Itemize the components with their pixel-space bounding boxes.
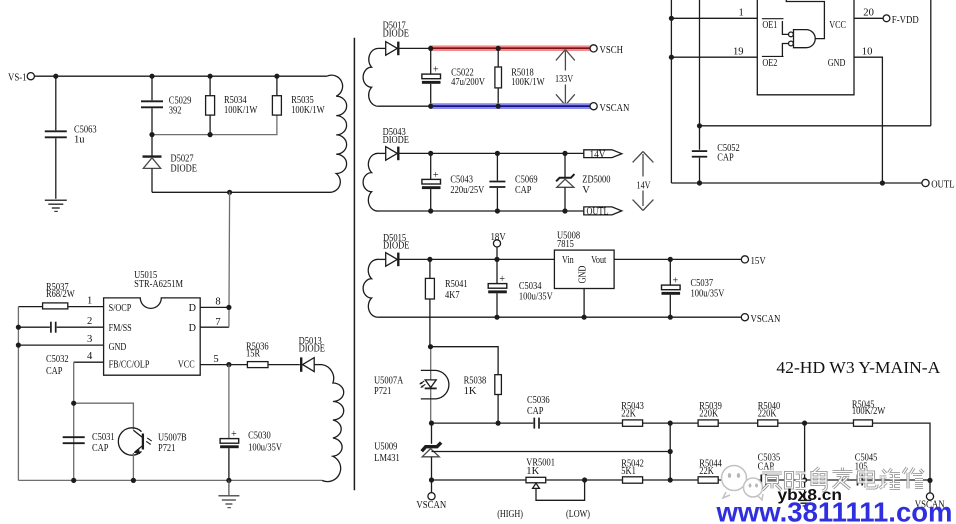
svg-text:VS-1: VS-1 bbox=[8, 71, 27, 83]
svg-text:22K: 22K bbox=[699, 466, 714, 477]
svg-text:(LOW): (LOW) bbox=[566, 509, 590, 520]
flag OUTL bbox=[584, 207, 622, 218]
node bottom-rail junctions bbox=[71, 478, 231, 483]
svg-text:DIODE: DIODE bbox=[171, 163, 197, 174]
svg-text:220K: 220K bbox=[758, 409, 777, 420]
svg-text:(HIGH): (HIGH) bbox=[497, 509, 523, 520]
svg-text:FM/SS: FM/SS bbox=[109, 323, 132, 334]
resistor R5035 bbox=[272, 76, 324, 116]
nand gate U-gate bbox=[782, 21, 815, 56]
transistor U5007B bbox=[118, 428, 186, 481]
svg-text:DIODE: DIODE bbox=[383, 28, 409, 39]
wire opto branch bbox=[431, 347, 499, 375]
svg-text:DIODE: DIODE bbox=[383, 135, 409, 146]
transformer 14V winding bbox=[363, 153, 379, 211]
wire VSCAN mid rail bbox=[379, 316, 741, 318]
svg-text:STR-A6251M: STR-A6251M bbox=[134, 279, 183, 290]
wire pin1 bbox=[18, 296, 103, 307]
transformer primary winding bbox=[327, 75, 347, 192]
svg-text:R68/2W: R68/2W bbox=[46, 289, 75, 300]
wire pin3 bbox=[18, 334, 103, 345]
svg-text:C5037: C5037 bbox=[691, 278, 714, 289]
svg-text:VSCAN: VSCAN bbox=[600, 102, 630, 114]
watermark www.3811111.com bbox=[715, 497, 952, 524]
svg-text:5: 5 bbox=[213, 354, 218, 365]
wire OUTL row bbox=[379, 210, 584, 212]
14V span arrow bbox=[633, 152, 654, 211]
svg-text:Vin: Vin bbox=[562, 255, 574, 266]
transformer core bbox=[353, 38, 355, 491]
gate IC box bbox=[757, 0, 854, 95]
terminal VSCAN-bottom-right bbox=[915, 493, 945, 511]
svg-text:19: 19 bbox=[733, 46, 744, 57]
capacitor C5035 bbox=[758, 453, 781, 486]
svg-text:14V: 14V bbox=[590, 149, 607, 160]
svg-text:4: 4 bbox=[87, 351, 93, 362]
svg-text:100u/35V: 100u/35V bbox=[519, 292, 553, 303]
svg-text:42-HD W3 Y-MAIN-A: 42-HD W3 Y-MAIN-A bbox=[776, 358, 940, 377]
svg-text:8: 8 bbox=[215, 297, 220, 308]
wire divider link vertical bbox=[669, 423, 671, 480]
svg-text:1K: 1K bbox=[526, 466, 539, 477]
wire pin5 VCC bbox=[200, 354, 247, 365]
svg-text:OE1: OE1 bbox=[762, 20, 777, 31]
diode D5017 bbox=[379, 20, 430, 55]
node primary-bottom junction bbox=[227, 190, 232, 195]
svg-text:1: 1 bbox=[87, 296, 92, 307]
diode D5015 bbox=[379, 233, 554, 266]
svg-text:47u/200V: 47u/200V bbox=[451, 77, 485, 88]
node pin4-loop junction bbox=[71, 401, 76, 406]
svg-text:VSCH: VSCH bbox=[600, 44, 624, 56]
svg-text:10: 10 bbox=[862, 46, 873, 57]
svg-text:1u: 1u bbox=[74, 135, 85, 146]
svg-text:C5031: C5031 bbox=[92, 432, 115, 443]
svg-text:5K1: 5K1 bbox=[621, 466, 636, 477]
label board title bbox=[776, 358, 940, 377]
wire pin19 OE2 bbox=[671, 46, 757, 57]
node logic-left junctions bbox=[669, 16, 674, 60]
wire feedback row A bbox=[432, 423, 931, 493]
resistor R5044 bbox=[698, 458, 722, 483]
svg-text:4K7: 4K7 bbox=[445, 290, 460, 301]
capacitor C5043 bbox=[422, 153, 485, 211]
shunt-reg U5009 LM431 bbox=[374, 423, 441, 480]
svg-text:22K: 22K bbox=[621, 409, 636, 420]
wire C5035 node vertical + ground bbox=[798, 423, 811, 506]
resistor R5042 bbox=[621, 458, 644, 483]
svg-text:VCC: VCC bbox=[829, 20, 846, 31]
wire C5052 branch bbox=[700, 125, 931, 127]
wire pin4 loop bbox=[74, 351, 134, 480]
capacitor C5052 bbox=[692, 143, 740, 183]
133V span arrow bbox=[555, 50, 575, 106]
svg-text:220u/25V: 220u/25V bbox=[450, 185, 484, 196]
svg-text:R5038: R5038 bbox=[464, 376, 487, 387]
wire bottom of primary bbox=[152, 191, 329, 193]
svg-text:C5030: C5030 bbox=[248, 430, 271, 441]
node pin8 junction bbox=[226, 305, 231, 310]
wire VSCH red bus bbox=[430, 45, 592, 51]
svg-text:V: V bbox=[582, 185, 590, 196]
wire 15V rail bbox=[614, 258, 741, 260]
svg-text:CAP: CAP bbox=[527, 406, 544, 417]
svg-text:100K/2W: 100K/2W bbox=[852, 406, 885, 417]
svg-text:1K: 1K bbox=[464, 386, 477, 397]
wire bottom rail bbox=[18, 479, 322, 481]
transformer VSCH winding bbox=[363, 48, 379, 106]
svg-text:CAP: CAP bbox=[758, 461, 775, 472]
capacitor C5036 bbox=[527, 395, 550, 429]
diode D5013 bbox=[299, 336, 325, 372]
capacitor C5032 bbox=[18, 316, 103, 377]
svg-text:D: D bbox=[189, 323, 196, 334]
wire pin7 bbox=[200, 317, 229, 328]
capacitor C5063 bbox=[45, 76, 97, 199]
wire top rail bbox=[34, 75, 327, 77]
svg-text:C5034: C5034 bbox=[519, 281, 542, 292]
resistor R5041 bbox=[425, 259, 467, 346]
svg-text:ZD5000: ZD5000 bbox=[582, 175, 610, 186]
svg-text:D: D bbox=[189, 303, 196, 314]
svg-text:100K/1W: 100K/1W bbox=[224, 105, 257, 116]
capacitor C5030 bbox=[220, 365, 282, 481]
resistor R5040 bbox=[758, 401, 781, 426]
svg-text:C5036: C5036 bbox=[527, 395, 550, 406]
wire pin20 F-VDD bbox=[854, 7, 883, 18]
svg-text:100u/35V: 100u/35V bbox=[248, 442, 282, 453]
svg-text:7: 7 bbox=[215, 317, 220, 328]
svg-text:www.3811111.com: www.3811111.com bbox=[715, 497, 952, 524]
svg-text:C5069: C5069 bbox=[515, 175, 538, 186]
wire pin1 OE1 bbox=[671, 7, 757, 18]
svg-text:220K: 220K bbox=[699, 409, 718, 420]
node logic-bottom junctions bbox=[697, 180, 885, 185]
svg-text:GND: GND bbox=[577, 266, 588, 284]
wire feedback row C bbox=[432, 479, 931, 481]
terminal VS-1 bbox=[8, 71, 34, 83]
svg-text:15V: 15V bbox=[751, 255, 766, 267]
potentiometer VR5001 bbox=[526, 457, 585, 500]
zener ZD5000 bbox=[556, 153, 610, 211]
diode D5027 bbox=[143, 135, 197, 193]
wire pin10 GND down bbox=[854, 46, 882, 183]
wire gray link C5029-R5034-R5035 bbox=[152, 115, 277, 135]
node pin5 junction bbox=[226, 362, 231, 367]
wire logic-block bottom OUTL bbox=[671, 182, 921, 184]
svg-text:15R: 15R bbox=[246, 349, 261, 360]
resistor R5018 bbox=[495, 48, 545, 106]
wire U5008 GND stem bbox=[583, 289, 585, 318]
svg-text:R5041: R5041 bbox=[445, 279, 468, 290]
svg-text:CAP: CAP bbox=[46, 366, 63, 377]
diode D5043 bbox=[379, 127, 584, 160]
wire nand output loop bbox=[786, 0, 824, 39]
svg-text:VSCAN: VSCAN bbox=[416, 499, 446, 511]
wire drain vertical to primary bbox=[228, 192, 231, 327]
label LOW bbox=[566, 509, 590, 520]
svg-text:VSCAN: VSCAN bbox=[751, 313, 781, 325]
svg-text:14V: 14V bbox=[637, 181, 652, 192]
svg-text:OUTL: OUTL bbox=[931, 179, 955, 191]
resistor R5043 bbox=[621, 401, 644, 426]
op-amp U5015 IC box bbox=[104, 270, 201, 375]
terminal F-VDD bbox=[883, 14, 919, 26]
terminal OUTL bbox=[922, 179, 955, 191]
watermark ybx8.cn bbox=[778, 487, 843, 504]
ground under C5030 bbox=[218, 480, 239, 507]
svg-text:2: 2 bbox=[87, 316, 92, 327]
svg-text:OUTL: OUTL bbox=[587, 207, 609, 218]
svg-text:CAP: CAP bbox=[92, 443, 109, 454]
terminal VSCAN-15Vrow bbox=[741, 313, 780, 325]
svg-text:DIODE: DIODE bbox=[299, 343, 325, 354]
svg-text:1: 1 bbox=[739, 7, 744, 18]
capacitor C5069 bbox=[489, 153, 537, 211]
capacitor C5022 bbox=[422, 48, 485, 106]
svg-text:OE2: OE2 bbox=[762, 58, 777, 69]
svg-text:20: 20 bbox=[863, 7, 874, 18]
svg-text:P721: P721 bbox=[158, 443, 175, 454]
svg-text:LM431: LM431 bbox=[374, 453, 399, 464]
node feedback junctions bbox=[429, 421, 933, 484]
svg-text:GND: GND bbox=[109, 342, 127, 353]
svg-text:CAP: CAP bbox=[515, 185, 532, 196]
wire logic-block second vertical bbox=[699, 0, 701, 150]
terminal 18V bbox=[491, 231, 506, 260]
watermark logo faces bbox=[722, 466, 764, 501]
svg-text:GND: GND bbox=[828, 58, 846, 69]
transformer 18V winding bbox=[363, 259, 379, 317]
svg-text:133V: 133V bbox=[555, 74, 574, 85]
wire left vertical loop bbox=[17, 307, 19, 481]
wire reference row B bbox=[432, 451, 671, 453]
svg-text:3: 3 bbox=[87, 334, 92, 345]
svg-text:VCC: VCC bbox=[178, 360, 195, 371]
svg-text:C5032: C5032 bbox=[46, 354, 69, 365]
svg-text:S/OCP: S/OCP bbox=[109, 303, 132, 314]
capacitor C5031 bbox=[63, 432, 115, 454]
node link junctions bbox=[149, 132, 212, 137]
node VSCH-row junctions bbox=[428, 46, 501, 109]
watermark chinese text bbox=[762, 468, 924, 492]
terminal VSCAN-top bbox=[590, 102, 629, 114]
capacitor C5045 bbox=[855, 453, 878, 486]
node left-vertical junctions bbox=[16, 325, 21, 348]
wire logic-block right vertical bbox=[930, 0, 932, 126]
svg-text:F-VDD: F-VDD bbox=[892, 14, 919, 26]
terminal VSCH bbox=[590, 44, 623, 56]
svg-text:U5009: U5009 bbox=[374, 442, 397, 453]
node 18V-row junctions bbox=[427, 257, 673, 350]
resistor R5037 bbox=[43, 282, 75, 309]
svg-text:100u/35V: 100u/35V bbox=[691, 289, 725, 300]
svg-text:Vout: Vout bbox=[591, 255, 606, 266]
svg-text:FB/CC/OLP: FB/CC/OLP bbox=[109, 360, 150, 371]
regulator U5008 7815 bbox=[554, 230, 614, 288]
svg-text:C5043: C5043 bbox=[450, 175, 473, 186]
node top-rail junctions bbox=[53, 74, 279, 79]
ground under C5063 bbox=[45, 200, 67, 211]
svg-text:CAP: CAP bbox=[717, 152, 734, 163]
terminal VSCAN-bottom-left bbox=[416, 480, 446, 511]
wire logic-block left vertical bbox=[670, 0, 672, 183]
flag 14V bbox=[584, 149, 622, 160]
capacitor C5034 bbox=[488, 259, 553, 317]
node C5052-branch junction bbox=[697, 123, 702, 128]
resistor R5038 bbox=[464, 375, 502, 423]
resistor R5034 bbox=[206, 76, 258, 134]
resistor R5039 bbox=[698, 401, 722, 426]
node 14V-row junctions bbox=[428, 151, 568, 214]
svg-text:100K/1W: 100K/1W bbox=[291, 105, 324, 116]
svg-text:P721: P721 bbox=[374, 386, 391, 397]
label HIGH bbox=[497, 509, 523, 520]
svg-text:DIODE: DIODE bbox=[383, 241, 409, 252]
capacitor C5037 bbox=[662, 259, 725, 317]
svg-text:18V: 18V bbox=[491, 231, 506, 243]
svg-text:392: 392 bbox=[169, 106, 182, 117]
svg-text:U5007A: U5007A bbox=[374, 376, 403, 387]
svg-text:7815: 7815 bbox=[557, 239, 574, 250]
resistor R5045 bbox=[852, 399, 885, 426]
wire pin8 bbox=[200, 297, 229, 308]
terminal 15V bbox=[741, 255, 765, 267]
svg-text:U5007B: U5007B bbox=[158, 432, 187, 443]
wire VSCAN blue bus bbox=[379, 103, 591, 109]
resistor R5036 bbox=[246, 342, 300, 368]
svg-text:100K/1W: 100K/1W bbox=[511, 77, 544, 88]
opto-LED U5007A bbox=[374, 349, 449, 423]
transformer VCC winding bbox=[322, 365, 344, 482]
capacitor C5029 bbox=[141, 76, 191, 134]
